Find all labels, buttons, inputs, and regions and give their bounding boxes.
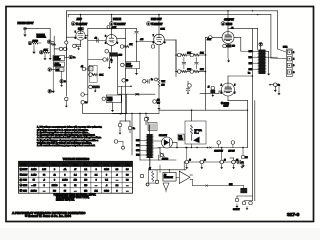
svg-text:BOOST: BOOST (126, 66, 133, 68)
svg-text:7: 7 (234, 92, 235, 94)
svg-text:½ 12AU7: ½ 12AU7 (114, 22, 126, 26)
svg-text:PIN 9: PIN 9 (115, 164, 120, 166)
svg-text:—: — (126, 190, 128, 192)
svg-text:—8.5: —8.5 (31, 185, 36, 187)
svg-text:327-9: 327-9 (287, 212, 300, 218)
svg-text:1.4AC: 1.4AC (31, 173, 37, 176)
svg-text:CONT: CONT (107, 100, 113, 102)
svg-text:.02: .02 (95, 38, 97, 40)
svg-text:all voltage measured to B- unl: all voltage measured to B- unless noted … (37, 128, 89, 131)
svg-text:—: — (95, 185, 97, 187)
svg-text:2.4: 2.4 (116, 185, 119, 187)
svg-text:CONTROL: CONTROL (37, 37, 47, 39)
svg-text:98: 98 (43, 174, 45, 176)
svg-text:1.9: 1.9 (116, 169, 119, 171)
svg-text:TONE: TONE (107, 97, 113, 99)
svg-text:5. Nominal tolerance of compon: 5. Nominal tolerance of component values… (37, 139, 99, 142)
svg-text:—: — (43, 190, 45, 192)
svg-text:85: 85 (33, 180, 35, 182)
svg-text:1.4: 1.4 (74, 174, 77, 176)
svg-text:GRN: GRN (136, 140, 139, 142)
svg-text:PRE OUT: PRE OUT (151, 18, 162, 21)
svg-text:85: 85 (64, 190, 66, 192)
svg-text:1n: 1n (151, 79, 153, 81)
svg-text:.01: .01 (81, 66, 83, 68)
svg-text:6. All controls at minimum, pr: 6. All controls at minimum, proper outpu… (37, 144, 95, 147)
svg-text:ON-OFF SW: ON-OFF SW (214, 150, 223, 152)
svg-text:OUTPUT: OUTPUT (224, 19, 234, 22)
svg-text:SEL RECT: SEL RECT (159, 135, 167, 137)
svg-text:110: 110 (84, 190, 87, 192)
svg-text:PIN 8: PIN 8 (104, 164, 109, 166)
svg-text:PRE IN: PRE IN (113, 18, 121, 21)
svg-text:42: 42 (53, 174, 55, 176)
svg-text:OUTPUT: OUTPUT (233, 209, 240, 211)
svg-text:.9: .9 (116, 174, 118, 176)
svg-text:5n: 5n (111, 59, 113, 61)
svg-text:6.3: 6.3 (126, 169, 129, 171)
svg-text:117AC: 117AC (52, 184, 58, 187)
svg-text:110: 110 (74, 180, 77, 182)
svg-text:B+: B+ (248, 73, 250, 75)
svg-text:LINE AT 117V AC.: LINE AT 117V AC. (56, 198, 75, 201)
svg-text:50: 50 (126, 80, 128, 82)
svg-text:.6: .6 (106, 185, 108, 187)
svg-text:1.1: 1.1 (84, 169, 87, 171)
svg-text:2200: 2200 (119, 55, 123, 57)
svg-text:GRN: GRN (248, 69, 251, 71)
svg-text:HTR: HTR (125, 164, 130, 166)
svg-text:2n: 2n (73, 57, 75, 59)
svg-text:—: — (74, 190, 76, 192)
svg-text:TUBE: TUBE (21, 164, 27, 166)
svg-text:7: 7 (75, 32, 76, 34)
svg-text:GRN: GRN (229, 184, 232, 186)
svg-text:1 MEG: 1 MEG (33, 40, 39, 42)
svg-text:150: 150 (157, 100, 160, 102)
svg-text:½ 12AU7: ½ 12AU7 (151, 22, 163, 26)
svg-text:BLU: BLU (249, 51, 252, 53)
svg-text:1.75: 1.75 (162, 85, 165, 87)
svg-text:2. Socket connections are show: 2. Socket connections are shown as botto… (37, 131, 89, 134)
svg-text:3: 3 (293, 52, 294, 54)
svg-text:0: 0 (64, 174, 65, 176)
svg-text:PIN 7: PIN 7 (94, 164, 99, 166)
svg-text:2n: 2n (85, 102, 87, 104)
svg-text:1. DC voltage measurements tak: 1. DC voltage measurements taken with va… (37, 126, 102, 129)
svg-text:4. Line voltage maintained at: 4. Line voltage maintained at 117 volts … (37, 136, 102, 139)
svg-text:1: 1 (105, 42, 106, 44)
svg-text:.005: .005 (140, 39, 143, 41)
svg-text:47: 47 (74, 169, 76, 171)
svg-text:AMP: AMP (77, 18, 83, 21)
svg-text:50B5: 50B5 (23, 190, 27, 192)
svg-text:2.1: 2.1 (95, 174, 98, 176)
svg-text:0: 0 (96, 169, 97, 171)
svg-text:INTERLOCK: INTERLOCK (164, 177, 174, 179)
svg-text:LINE: LINE (179, 136, 182, 138)
svg-text:1.05: 1.05 (42, 169, 46, 171)
svg-text:90: 90 (64, 185, 66, 187)
svg-text:6.3: 6.3 (126, 180, 129, 182)
svg-text:121: 121 (95, 190, 98, 192)
svg-text:2n: 2n (64, 81, 66, 83)
svg-text:GRN: GRN (136, 150, 139, 152)
svg-text:92: 92 (74, 185, 76, 187)
svg-text:PIN 1: PIN 1 (31, 164, 36, 166)
svg-text:220K: 220K (112, 27, 117, 29)
svg-text:0: 0 (54, 169, 55, 171)
svg-text:REC CH: REC CH (55, 65, 61, 67)
svg-text:.9: .9 (43, 180, 45, 182)
svg-text:5n: 5n (133, 128, 135, 130)
svg-text:—: — (126, 185, 128, 187)
svg-text:50B5: 50B5 (226, 22, 233, 26)
svg-text:PHONO INPUT: PHONO INPUT (18, 23, 35, 25)
svg-text:6: 6 (75, 38, 76, 40)
svg-text:CORD: CORD (179, 139, 183, 141)
svg-text:© Howard W. Sams & Co. Inc. 19: © Howard W. Sams & Co. Inc. 1954 (25, 214, 71, 218)
svg-text:105AC: 105AC (31, 189, 37, 192)
svg-text:6.3: 6.3 (126, 174, 129, 176)
svg-text:3. Measured with vacuum tube v: 3. Measured with vacuum tube voltmeter, … (37, 134, 95, 137)
svg-text:PIN 6: PIN 6 (83, 164, 88, 166)
svg-text:PIN 5: PIN 5 (73, 164, 78, 166)
svg-text:½ 12AU7: ½ 12AU7 (76, 22, 88, 26)
svg-text:0: 0 (106, 174, 107, 176)
svg-text:PIN 3: PIN 3 (52, 164, 57, 166)
svg-text:0: 0 (44, 185, 45, 187)
svg-text:36AC: 36AC (104, 189, 109, 192)
svg-text:6: 6 (153, 42, 154, 44)
svg-text:0: 0 (54, 180, 55, 182)
svg-text:—: — (116, 180, 118, 182)
svg-text:1.2AC: 1.2AC (62, 179, 68, 182)
svg-text:20: 20 (204, 160, 206, 162)
svg-text:7: 7 (153, 35, 154, 37)
svg-text:5: 5 (234, 85, 235, 87)
svg-text:2: 2 (105, 36, 106, 38)
svg-text:VOLTAGE READINGS: VOLTAGE READINGS (63, 157, 90, 161)
svg-text:50B5: 50B5 (23, 180, 27, 182)
svg-text:8: 8 (293, 65, 294, 67)
svg-text:PIN 2: PIN 2 (42, 164, 47, 166)
svg-text:SELECT: SELECT (54, 59, 62, 61)
svg-text:variation of ± 20% in voltage: variation of ± 20% in voltage and resist… (37, 141, 92, 144)
svg-text:86: 86 (85, 174, 87, 176)
svg-text:0: 0 (116, 190, 117, 192)
svg-text:0: 0 (96, 180, 97, 182)
svg-text:7.4: 7.4 (105, 180, 108, 182)
svg-text:150: 150 (232, 46, 235, 48)
svg-text:63AC: 63AC (104, 168, 109, 171)
svg-text:1.2AC: 1.2AC (31, 168, 37, 171)
